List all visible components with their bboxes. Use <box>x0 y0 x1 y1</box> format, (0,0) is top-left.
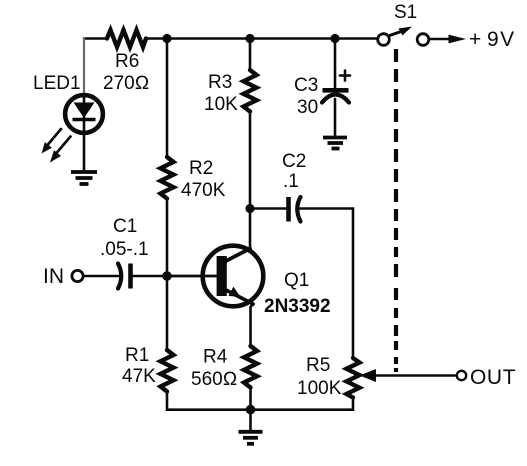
svg-text:R3: R3 <box>208 72 232 93</box>
svg-text:R5: R5 <box>306 355 330 376</box>
svg-text:C1: C1 <box>113 216 137 237</box>
wire top rail left segment <box>84 37 107 40</box>
node junction top rail / R3 branch <box>245 34 254 43</box>
svg-text:2N3392: 2N3392 <box>264 296 331 317</box>
+9V arrow <box>449 35 467 44</box>
transistor Q1 <box>203 246 264 307</box>
wire C3 branch upper <box>334 39 337 89</box>
wire R2 branch upper <box>166 39 169 158</box>
wire R2 to base node <box>166 199 169 277</box>
switch S1 <box>378 27 429 46</box>
svg-text:.1: .1 <box>283 171 299 192</box>
svg-text:270Ω: 270Ω <box>103 73 149 94</box>
wire LED branch vertical <box>83 39 85 94</box>
wire collector to C2 node <box>249 209 252 249</box>
svg-text:S1: S1 <box>394 2 417 23</box>
node junction base <box>162 271 172 281</box>
resistor R4 <box>244 346 257 388</box>
svg-text:.05-.1: .05-.1 <box>100 239 149 260</box>
wire switch to +9V arrow <box>429 38 451 41</box>
svg-text:10K: 10K <box>204 94 238 115</box>
node junction top rail / C3 branch <box>330 34 339 43</box>
svg-text:R6: R6 <box>115 51 139 72</box>
wire emitter down <box>251 304 254 346</box>
wire R5 bottom corner <box>167 398 353 410</box>
svg-text:470K: 470K <box>181 180 226 201</box>
wire R4 bottom <box>249 388 252 410</box>
capacitor C2 <box>289 197 301 222</box>
terminal IN <box>72 270 83 281</box>
wire IN to C1 <box>84 275 120 278</box>
svg-text:9V: 9V <box>487 28 516 51</box>
svg-text:LED1: LED1 <box>33 73 81 94</box>
svg-text:47K: 47K <box>122 366 156 387</box>
resistor R6 <box>107 30 146 47</box>
svg-text:C3: C3 <box>294 75 318 96</box>
svg-text:100K: 100K <box>297 378 342 399</box>
wire C1 to base node <box>131 275 167 278</box>
svg-text:560Ω: 560Ω <box>191 369 237 390</box>
ground (C3) <box>323 138 347 149</box>
wire bottom node to ground <box>249 410 252 431</box>
capacitor C3 <box>322 71 350 103</box>
svg-text:R2: R2 <box>189 158 213 179</box>
wire R3 to C2 node <box>249 112 252 209</box>
terminal OUT <box>457 371 466 380</box>
svg-text:R4: R4 <box>203 347 228 368</box>
svg-text:OUT: OUT <box>470 366 516 389</box>
resistor R3 <box>244 70 257 112</box>
svg-text:R1: R1 <box>125 345 149 366</box>
wire R1 bottom <box>166 392 169 410</box>
wire R3 branch upper <box>249 39 252 71</box>
svg-text:C2: C2 <box>282 151 306 172</box>
wire C3 to ground <box>334 99 337 136</box>
wire base node to Q1 base <box>167 275 218 278</box>
wire LED to ground <box>83 135 86 171</box>
resistor R2 <box>161 157 174 199</box>
ground (bottom) <box>239 432 263 444</box>
LED LED1 <box>42 95 103 163</box>
node junction top rail / R2 branch <box>162 34 171 43</box>
dashed gang line S1-R5 <box>394 49 398 372</box>
svg-text:30: 30 <box>297 97 318 118</box>
svg-text:+: + <box>469 28 481 51</box>
node junction bottom ground <box>246 405 256 415</box>
capacitor C1 <box>118 264 131 289</box>
svg-text:IN: IN <box>43 265 64 288</box>
resistor R1 <box>161 350 174 392</box>
wire C2 right to corner <box>299 209 353 359</box>
svg-text:Q1: Q1 <box>284 270 309 291</box>
wire base node to R1 <box>166 276 169 350</box>
ground (LED) <box>71 172 97 184</box>
resistor R5 potentiometer <box>347 358 360 398</box>
wire C2 left <box>250 207 286 210</box>
node junction collector / C2 <box>245 204 254 213</box>
wire top rail right segment <box>146 37 378 40</box>
R5 wiper arrow <box>370 374 456 377</box>
